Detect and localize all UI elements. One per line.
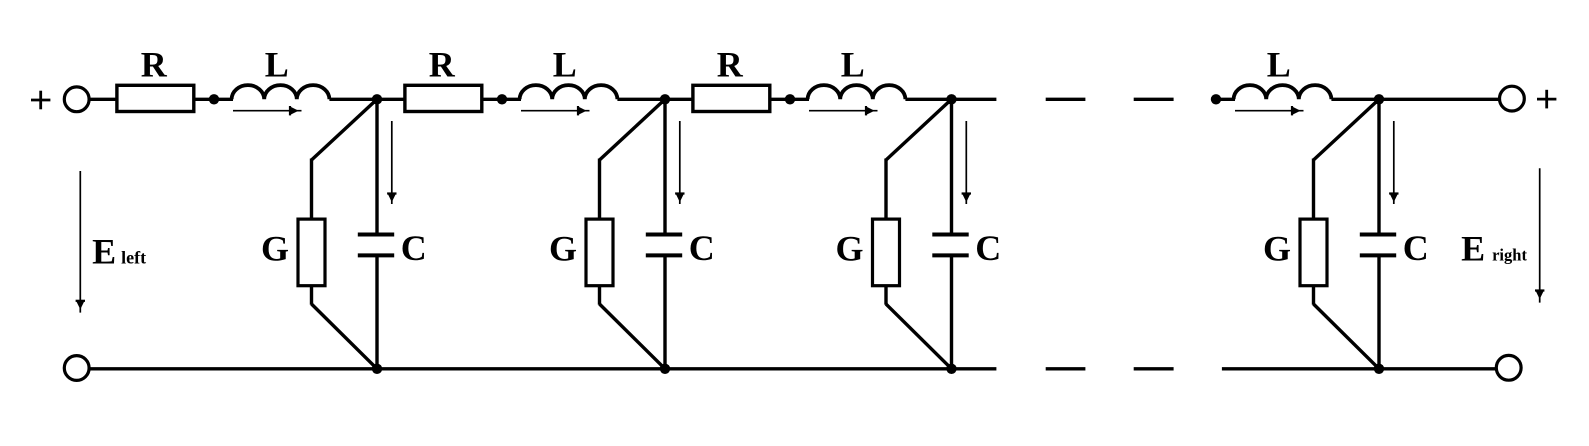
inductor L4 — [1234, 85, 1332, 99]
conductance G1 — [298, 219, 325, 286]
voltage arrow at C1 — [387, 121, 396, 204]
wire from G3 bottom — [884, 285, 887, 305]
wire from G2 bottom — [598, 285, 601, 305]
wire from C4 to bottom rail — [1377, 255, 1380, 368]
wire L3 to node 3 — [905, 98, 955, 101]
svg-text:L: L — [553, 44, 577, 84]
svg-text:R: R — [429, 44, 456, 84]
wire from C3 to bottom rail — [950, 255, 953, 368]
wire into G3 top — [884, 159, 887, 221]
svg-text:L: L — [841, 44, 865, 84]
capacitor C4 — [1360, 235, 1396, 256]
bottom rail right segment — [1222, 367, 1497, 370]
inductor L3 — [808, 85, 906, 99]
wire stub dot to L4 — [1216, 98, 1235, 101]
top node 1 — [372, 94, 382, 104]
wire from node 3 rightwards — [953, 98, 996, 101]
svg-text:C: C — [401, 228, 427, 268]
voltage arrow at C4 — [1389, 121, 1398, 204]
wire from node into C4 — [1377, 99, 1380, 234]
svg-text:G: G — [261, 229, 289, 269]
svg-text:G: G — [835, 229, 863, 269]
wire R3 to L3 — [769, 98, 809, 101]
bottom node 2 — [660, 364, 670, 374]
resistor R1 — [117, 85, 194, 111]
wire L4 through node 4 to top-right terminal — [1331, 98, 1499, 101]
conductance G3 — [873, 219, 900, 286]
wire into G4 top — [1312, 159, 1315, 221]
wire from node 1 to R2 — [377, 98, 408, 101]
voltage arrow at C2 — [675, 121, 684, 204]
wire from node 2 to R3 — [665, 98, 696, 101]
current arrow under L1 — [233, 106, 302, 115]
svg-text:L: L — [1267, 44, 1291, 84]
junction dot between R2 and L2 — [497, 94, 507, 104]
wire into G2 top — [598, 159, 601, 221]
wire: diagonal from node to G4 — [1314, 99, 1380, 160]
wire: diagonal from G2 to bottom node — [600, 304, 666, 369]
current arrow under L2 — [521, 106, 590, 115]
bottom rail left segment — [89, 367, 996, 370]
terminal circle bottom-right — [1496, 355, 1521, 380]
conductance G2 — [586, 219, 613, 286]
wire from C2 to bottom rail — [663, 255, 666, 368]
wire L2 to node 2 — [617, 98, 669, 101]
svg-text:R: R — [717, 44, 744, 84]
svg-text:L: L — [265, 44, 289, 84]
wire from node into C2 — [663, 99, 666, 234]
terminal circle top-left — [64, 87, 89, 112]
voltage arrow at C3 — [962, 121, 971, 204]
wire from node into C3 — [950, 99, 953, 234]
terminal circle top-right — [1500, 86, 1525, 111]
terminal circle bottom-left — [64, 356, 89, 381]
top node 3 — [946, 94, 956, 104]
svg-text:C: C — [689, 228, 715, 268]
current arrow under L4 — [1235, 106, 1304, 115]
resistor R2 — [405, 85, 482, 111]
junction dot before last inductor — [1211, 94, 1221, 104]
top node 2 — [660, 94, 670, 104]
wire: diagonal from G1 to bottom node — [312, 304, 378, 369]
wire: diagonal from node to G3 — [886, 99, 952, 160]
wire from top-left terminal to R1 — [89, 98, 120, 101]
wire from node into C1 — [375, 99, 378, 234]
current arrow under L3 — [809, 106, 878, 115]
svg-text:G: G — [1263, 229, 1291, 269]
wire R2 to L2 — [481, 98, 521, 101]
wire: diagonal from G3 to bottom node — [886, 304, 952, 369]
wire L1 to node 1 — [329, 98, 381, 101]
plus sign at left input terminal — [31, 91, 50, 110]
wire into G1 top — [310, 159, 313, 221]
capacitor C2 — [646, 235, 682, 256]
bottom node 3 — [946, 364, 956, 374]
svg-text:R: R — [141, 44, 168, 84]
conductance G4 — [1300, 219, 1327, 286]
ellipsis dash 2 top rail — [1134, 98, 1174, 101]
ellipsis dash 2 bottom rail — [1134, 367, 1174, 370]
top node 4 — [1374, 94, 1384, 104]
svg-text:G: G — [549, 229, 577, 269]
bottom node 1 — [372, 364, 382, 374]
wire: diagonal from node to G2 — [600, 99, 666, 160]
resistor R3 — [693, 85, 770, 111]
voltage arrow E left — [76, 171, 85, 313]
wire from G4 bottom — [1312, 285, 1315, 305]
wire from G1 bottom — [310, 285, 313, 305]
capacitor C1 — [358, 235, 394, 256]
junction dot between R3 and L3 — [785, 94, 795, 104]
ellipsis dash 1 bottom rail — [1046, 367, 1086, 370]
plus sign at right output terminal — [1537, 90, 1556, 109]
junction dot between R1 and L1 — [209, 94, 219, 104]
voltage arrow E right — [1535, 168, 1544, 302]
inductor L1 — [232, 85, 330, 99]
inductor L2 — [520, 85, 618, 99]
ellipsis dash 1 top rail — [1046, 98, 1086, 101]
wire R1 to L1 — [193, 98, 233, 101]
wire: diagonal from G4 to bottom node — [1314, 304, 1380, 369]
wire from C1 to bottom rail — [375, 255, 378, 368]
svg-text:C: C — [1403, 228, 1429, 268]
wire: diagonal from node to G1 — [312, 99, 378, 160]
svg-text:C: C — [975, 228, 1001, 268]
bottom node 4 — [1374, 364, 1384, 374]
capacitor C3 — [932, 235, 968, 256]
